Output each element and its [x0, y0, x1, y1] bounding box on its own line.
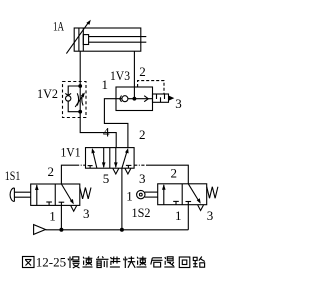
- wire cylinder left port to 1V2: [79, 51, 81, 86]
- 3/2 valve 1S1 body: [31, 184, 80, 205]
- junction node supply 1S1: [59, 228, 63, 232]
- 1S1 pushbutton actuator: [10, 188, 31, 202]
- caption char 前: [96, 256, 109, 267]
- 1S2 right box arrow 2 to 3: [188, 184, 200, 204]
- svg-text:1S1: 1S1: [5, 168, 20, 183]
- 1V1 exhaust port 5: [113, 169, 119, 175]
- 1S2 roller actuator: [137, 190, 158, 198]
- svg-text:1V3: 1V3: [110, 68, 130, 83]
- caption char 图: [23, 257, 35, 268]
- caption char 速 (second): [137, 256, 147, 267]
- 1V3 exhaust muffler port 3: [153, 94, 175, 102]
- 1V1 exhaust port 3: [125, 169, 131, 175]
- wire 1V1 port 1 to supply line: [121, 168, 123, 230]
- svg-text:1S2: 1S2: [132, 205, 151, 220]
- 1V1 right box blocked port T: [126, 165, 131, 168]
- svg-text:12-25: 12-25: [36, 254, 66, 269]
- 1S1 return spring: [80, 188, 91, 199]
- wire 1V2 to 1V1 port 4: [80, 112, 116, 148]
- 1V2 throttle adjust arrow: [75, 92, 85, 107]
- wire cylinder right port to 1V3 port 2: [133, 51, 135, 98]
- svg-text:2: 2: [139, 64, 146, 79]
- svg-text:1: 1: [102, 77, 109, 92]
- 1S1 right box blocked port T: [59, 202, 65, 205]
- flow control 1V2 dashed enclosure: [63, 82, 87, 118]
- 1V3 pilot dashed line: [138, 81, 164, 94]
- 1V2 throttle: [77, 86, 83, 112]
- svg-text:1: 1: [175, 208, 182, 223]
- pressure source: [34, 225, 46, 235]
- svg-text:1: 1: [126, 188, 133, 203]
- 1V1 left pilot dashed segment: [76, 164, 86, 166]
- cylinder cushion adjust arrow: [66, 20, 90, 54]
- 1S1 left box arrow 1 to 2: [35, 184, 39, 205]
- caption char 进: [110, 257, 121, 268]
- 1S1 left box blocked port T: [46, 202, 52, 205]
- svg-text:2: 2: [48, 164, 55, 179]
- quick exhaust valve 1V3 body: [116, 87, 153, 111]
- svg-text:3: 3: [139, 171, 146, 186]
- 1S2 left box arrow 1 to 2: [162, 184, 166, 205]
- junction node 1V2 bottom: [78, 110, 82, 114]
- caption 图12-25慢速前进快速后退回路: [23, 254, 205, 269]
- 1V1 right box arrow 4 to 5: [114, 148, 118, 168]
- 1V1 left box arrow 2 to 3: [102, 148, 106, 168]
- svg-text:5: 5: [103, 171, 110, 186]
- svg-text:1V1: 1V1: [61, 144, 81, 159]
- wire 1S2 port 2 to 1V1 right pilot: [146, 165, 188, 184]
- supply line: [46, 229, 189, 231]
- svg-text:1: 1: [49, 208, 56, 223]
- svg-text:3: 3: [207, 208, 214, 223]
- svg-text:2: 2: [171, 166, 178, 181]
- svg-text:3: 3: [83, 206, 90, 221]
- svg-text:4: 4: [103, 125, 110, 140]
- caption char 速: [83, 256, 93, 267]
- junction node supply 1V1: [120, 228, 124, 232]
- 1S2 left box blocked port T: [173, 201, 179, 204]
- wire 1S2 port 1 to supply: [187, 205, 189, 230]
- 5/2 valve 1V1 body: [86, 148, 135, 169]
- caption char 快: [123, 256, 135, 268]
- wire 1S1 port 1 to supply: [60, 205, 62, 229]
- caption char 回: [179, 257, 190, 268]
- 1V1 left box blocked port T: [88, 166, 93, 169]
- 1V1 right box arrow 1 to 2: [122, 148, 129, 168]
- caption char 退: [164, 257, 174, 267]
- svg-text:3: 3: [175, 96, 182, 111]
- 1S2 right box blocked port T: [186, 202, 192, 205]
- svg-text:1V2: 1V2: [37, 86, 58, 101]
- 1V1 left box arrow 1 to 4: [92, 148, 97, 168]
- 1V1 right pilot dashed segment: [134, 164, 146, 166]
- 1V3 internal flow path: [116, 96, 153, 102]
- wire 1S1 port 2 to 1V1 left pilot: [61, 165, 76, 184]
- cylinder 1A body: [74, 28, 146, 51]
- 1V2 bypass loop wire: [68, 86, 80, 112]
- 1V2 check valve: [65, 93, 71, 101]
- 1S1 right box arrow 2 to 3: [61, 184, 73, 204]
- caption char 慢: [68, 257, 80, 269]
- junction node 1V2 top: [78, 84, 82, 88]
- caption char 后: [151, 258, 163, 267]
- caption char 路: [193, 257, 205, 268]
- svg-text:2: 2: [139, 127, 146, 142]
- 1S2 return spring: [207, 187, 218, 198]
- svg-text:1A: 1A: [53, 19, 64, 34]
- wire 1V3 port 1 to 1V1 port 2: [104, 99, 128, 148]
- junction node 1V3: [133, 97, 137, 101]
- 1S1 exhaust port 3: [71, 206, 77, 212]
- 1S2 exhaust port 3: [198, 205, 204, 211]
- 3/2 roller valve 1S2 body: [158, 184, 207, 205]
